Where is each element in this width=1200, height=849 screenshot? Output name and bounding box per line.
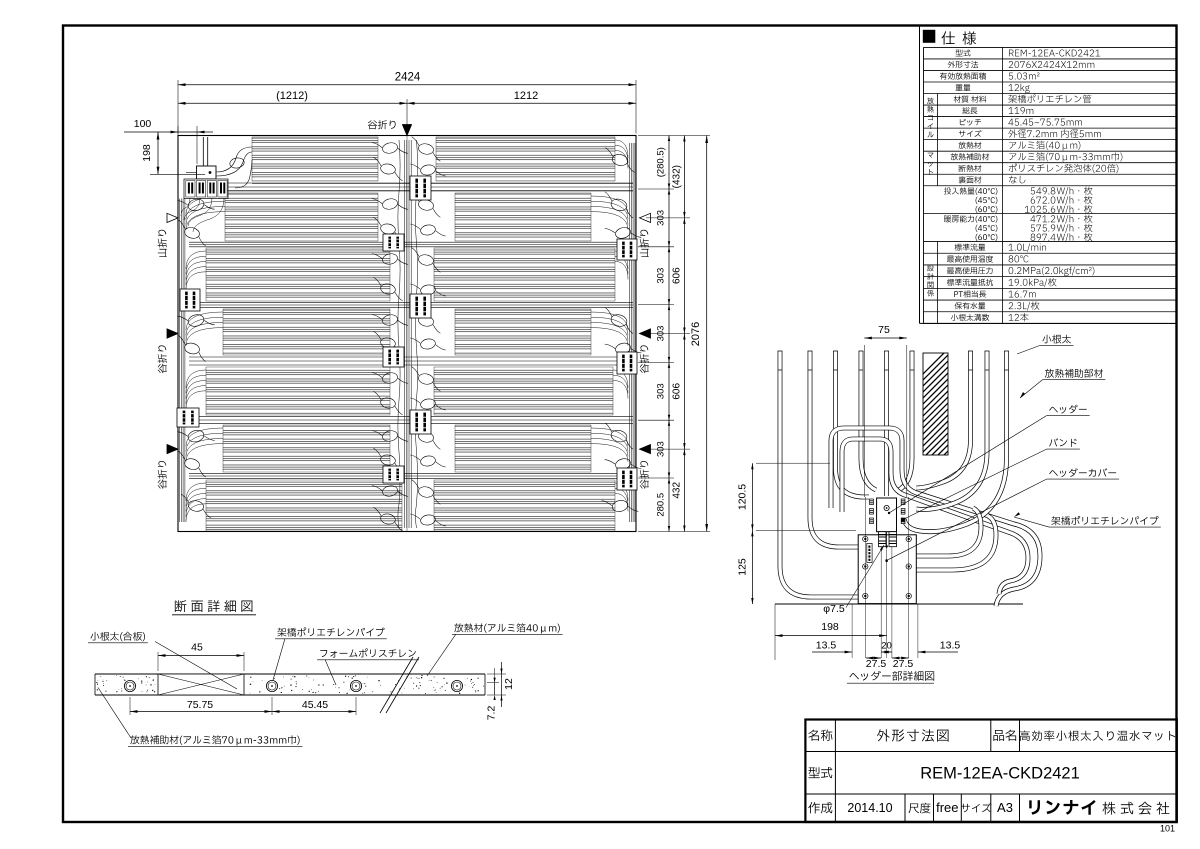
svg-text:20: 20 — [881, 641, 892, 652]
spec row 暖房能力 — [944, 215, 997, 223]
fold mark top center — [402, 125, 411, 136]
heating pipe dense runs — [252, 137, 378, 181]
spec row 保有水量 — [955, 302, 986, 309]
spec row 標準流量 — [955, 244, 986, 251]
svg-text:101: 101 — [1160, 824, 1175, 834]
fold mark left 1 (mountain) — [167, 213, 178, 222]
svg-text:φ7.5: φ7.5 — [823, 603, 845, 615]
svg-text:606: 606 — [672, 383, 683, 400]
tb 外形寸法図 — [877, 729, 949, 741]
tb 型式 — [809, 767, 833, 778]
center fold line — [406, 136, 408, 532]
fold mark right 1 (mountain) — [640, 213, 651, 222]
spec row 有効放熱面積 — [940, 72, 986, 79]
fold mark right 2 (valley) — [640, 329, 651, 338]
hd arrow 放熱補助 — [1019, 392, 1025, 399]
xs label 小根太(合板) — [90, 632, 145, 642]
dim 2424 / 1212 — [177, 80, 179, 134]
tb 尺度 — [909, 803, 931, 814]
svg-text:2424: 2424 — [395, 72, 421, 84]
svg-text:2076: 2076 — [690, 322, 702, 346]
svg-text:45.45: 45.45 — [302, 699, 328, 711]
tb 品名 — [993, 730, 1016, 741]
hd label ヘッダー — [1049, 405, 1086, 414]
svg-text:125: 125 — [737, 558, 749, 576]
hd label 放熱補助部材 — [1045, 369, 1103, 378]
spec row 最高使用温度 — [947, 255, 993, 262]
svg-text:75.75: 75.75 — [187, 699, 213, 711]
pipe joint boxes — [180, 289, 200, 311]
tb 作成 — [808, 802, 832, 813]
header detail pipes — [775, 603, 1023, 605]
spec row 材質 材料 — [954, 96, 987, 103]
tb リンナイ株式会社 — [1029, 800, 1095, 815]
edge bundles and fold curls — [179, 199, 181, 523]
svg-text:13.5: 13.5 — [940, 640, 961, 652]
svg-text:303: 303 — [656, 268, 667, 284]
spec row 放熱材 — [959, 142, 982, 149]
label tanioriri left2 — [158, 345, 167, 373]
fold mark left 3 (valley) — [167, 444, 178, 453]
spec row PT相当長 — [954, 290, 986, 297]
svg-text:303: 303 — [656, 383, 667, 399]
cross-section — [172, 614, 256, 616]
svg-text:606: 606 — [672, 267, 683, 284]
hd leader lines — [1040, 344, 1073, 346]
title block grid — [805, 720, 1176, 823]
hd label ヘッダーカバー — [1049, 468, 1116, 477]
hd label バンド — [1049, 438, 1076, 447]
spec row 最高使用圧力 — [947, 267, 993, 274]
spec row 標準流量抵抗 — [947, 279, 993, 286]
svg-text:75: 75 — [878, 324, 890, 336]
header connection top-left — [203, 137, 208, 166]
svg-text:432: 432 — [672, 482, 683, 499]
svg-text:100: 100 — [134, 118, 152, 130]
svg-text:303: 303 — [656, 441, 667, 457]
label tanioriri right2 — [640, 345, 649, 373]
svg-text:198: 198 — [141, 144, 153, 162]
header detail dims — [863, 345, 865, 497]
hd caption underline — [847, 682, 934, 684]
svg-text:REM-12EA-CKD2421: REM-12EA-CKD2421 — [920, 765, 1080, 783]
mat outline — [178, 136, 636, 532]
xs leaders — [88, 642, 148, 644]
xs label 放熱材(アルミ箔40μm) — [454, 623, 559, 633]
hd label 小根太 — [1042, 335, 1071, 344]
spec row 断熱材 — [959, 165, 982, 172]
spec row 小根太溝数 — [951, 314, 989, 321]
header detail caption — [849, 671, 934, 681]
label tanioriri right3 — [640, 461, 649, 489]
svg-text:free: free — [936, 800, 958, 815]
dim 198 — [157, 132, 159, 174]
xs label 放熱補助材(アルミ箔70μm-33mm巾) — [130, 735, 299, 745]
svg-text:2014.10: 2014.10 — [847, 801, 892, 815]
svg-text:27.5: 27.5 — [893, 658, 914, 670]
svg-text:303: 303 — [656, 326, 667, 342]
dim 100 — [177, 126, 179, 137]
tb サイズ — [961, 803, 992, 812]
spec row 総長 — [962, 107, 977, 114]
fold mark left 2 (valley) — [167, 329, 178, 338]
spec row 外形寸法 — [948, 61, 979, 68]
group 放熱コイル — [927, 98, 934, 105]
svg-text:A3: A3 — [997, 800, 1013, 815]
svg-text:303: 303 — [656, 210, 667, 226]
svg-text:13.5: 13.5 — [816, 640, 837, 652]
spec title — [923, 30, 936, 43]
label tanioriri left3 — [158, 461, 167, 489]
svg-text:280.5: 280.5 — [656, 493, 667, 517]
spec row 放熱補助材 — [951, 153, 989, 160]
svg-text:27.5: 27.5 — [866, 658, 887, 670]
connector runs between rows — [189, 182, 633, 184]
spec box — [919, 26, 921, 324]
spec row 重量 — [956, 84, 971, 91]
label yamaori right — [640, 230, 649, 257]
label yamaori left — [158, 230, 167, 257]
svg-text:12: 12 — [503, 678, 515, 690]
svg-text:1212: 1212 — [514, 90, 538, 102]
spec table grid — [924, 46, 1177, 48]
xs label フォームポリスチレン — [320, 648, 416, 657]
center crossing wiggles — [404, 140, 406, 528]
header and cover — [877, 498, 897, 532]
spec row 投入熱量 — [944, 187, 997, 195]
xs title — [175, 600, 253, 612]
spec row サイズ — [959, 130, 982, 137]
svg-text:45: 45 — [191, 642, 203, 654]
svg-text:(1212): (1212) — [276, 90, 308, 102]
right dimension chains — [638, 135, 710, 137]
svg-text:198: 198 — [821, 621, 839, 633]
spec row 型式 — [956, 49, 971, 56]
xs label 架橋ポリエチレンパイプ — [277, 627, 384, 636]
group マット — [928, 153, 934, 158]
group 設計関係 — [927, 265, 933, 271]
hd label 架橋ポリエチレンパイプ — [1051, 516, 1158, 525]
fold mark right 3 (valley) — [640, 444, 651, 453]
spec row ピッチ — [960, 119, 981, 126]
label tanioriri top — [368, 120, 396, 129]
svg-text:120.5: 120.5 — [737, 484, 749, 510]
tb 品名値 — [1020, 731, 1176, 741]
svg-text:(432): (432) — [672, 165, 683, 188]
svg-text:7.2: 7.2 — [485, 706, 497, 721]
spec row 裏面材 — [959, 176, 982, 183]
svg-text:(280.5): (280.5) — [656, 147, 667, 177]
tb 名称 — [808, 730, 832, 741]
